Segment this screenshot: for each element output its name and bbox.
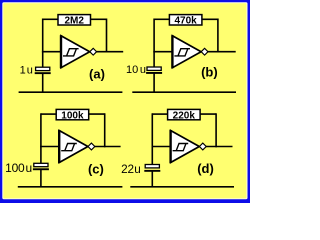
wire: resistor 470k right leg (202, 18, 218, 20)
capacitor 100u top plate (34, 163, 48, 166)
white inner frame line (2, 2, 247, 199)
output bubble diamond (d) (199, 143, 206, 150)
svg-text:(c): (c) (88, 162, 104, 177)
wire: input node vertical (c) (40, 113, 42, 163)
wire: inverter output (b) (207, 51, 236, 53)
wire: output feedback vertical (d) (215, 113, 217, 147)
hysteresis symbol (b) (174, 49, 190, 56)
svg-text:(b): (b) (201, 65, 218, 80)
svg-text:2M2: 2M2 (64, 16, 84, 27)
op-amp: Schmitt inverter (a) (61, 36, 90, 68)
output bubble diamond (b) (201, 48, 208, 55)
svg-text:1u: 1u (20, 64, 33, 76)
wire: inverter input (a) (42, 51, 61, 53)
wire: ground rail (b) (132, 91, 236, 93)
hysteresis symbol (d) (173, 144, 189, 151)
svg-text:10u: 10u (126, 64, 146, 76)
wire: inverter input (b) (153, 51, 172, 53)
wire: resistor 100k right leg (89, 113, 105, 115)
svg-text:(a): (a) (89, 67, 105, 82)
wire: resistor 2M2 right leg (91, 18, 107, 20)
wire: resistor 2M2 left leg (43, 18, 58, 20)
hysteresis symbol (c) (61, 144, 77, 151)
wire: inverter output (d) (205, 146, 232, 148)
resistor 470k (169, 15, 202, 25)
wire: capacitor bottom lead (a) (42, 74, 44, 93)
svg-text:100k: 100k (61, 110, 84, 121)
wire: inverter input (d) (152, 146, 171, 148)
op-amp: Schmitt inverter (d) (171, 131, 200, 163)
capacitor 10u bottom plate (146, 72, 162, 74)
yellow background (3, 3, 246, 198)
output bubble diamond (c) (88, 143, 95, 150)
wire: resistor 220k left leg (152, 113, 167, 115)
capacitor 1u top plate (36, 67, 50, 70)
wire: ground rail (d) (130, 186, 234, 188)
wire: inverter input (c) (40, 146, 59, 148)
wire: inverter output (a) (96, 51, 123, 53)
wire: resistor 100k left leg (41, 113, 56, 115)
wire: inverter output (c) (94, 146, 121, 148)
wire: input node vertical (d) (151, 113, 153, 165)
capacitor 1u bottom plate (35, 72, 51, 74)
wire: output feedback vertical (a) (106, 19, 108, 53)
svg-text:470k: 470k (174, 16, 197, 27)
resistor 2M2 (58, 15, 91, 25)
capacitor 22u top plate (145, 165, 159, 168)
wire: resistor 470k left leg (154, 18, 169, 20)
op-amp: Schmitt inverter (b) (172, 36, 201, 68)
wire: resistor 220k right leg (200, 113, 216, 115)
resistor 220k (168, 109, 201, 119)
wire: capacitor bottom lead (b) (153, 73, 155, 92)
wire: ground rail (c) (18, 186, 123, 188)
wire: capacitor bottom lead (d) (151, 171, 153, 187)
svg-text:100u: 100u (5, 161, 32, 175)
wire: output feedback vertical (b) (217, 19, 219, 53)
wire: input node vertical (b) (153, 19, 155, 68)
hysteresis symbol (a) (63, 49, 79, 56)
wire: input node vertical (a) (42, 19, 44, 68)
capacitor 10u top plate (147, 67, 161, 70)
svg-text:(d): (d) (197, 161, 214, 176)
resistor 100k (56, 109, 88, 119)
wire: output feedback vertical (c) (104, 113, 106, 147)
svg-text:22u: 22u (121, 163, 140, 176)
wire: capacitor bottom lead (c) (40, 170, 42, 187)
output bubble diamond (a) (90, 48, 97, 55)
blue frame border (0, 0, 250, 203)
capacitor 22u bottom plate (144, 170, 160, 172)
wire: ground rail (a) (19, 91, 123, 93)
svg-text:220k: 220k (173, 110, 196, 121)
capacitor 100u bottom plate (33, 168, 49, 170)
op-amp: Schmitt inverter (c) (59, 131, 88, 163)
